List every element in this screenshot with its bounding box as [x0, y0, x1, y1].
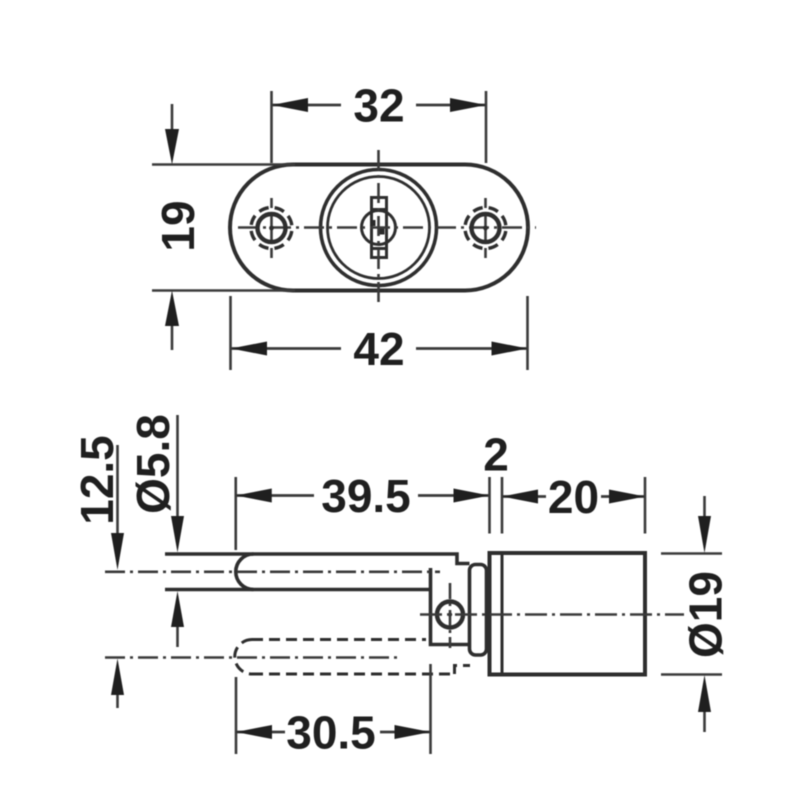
dimension 30.5 [236, 664, 431, 754]
keyway mark lower [379, 229, 385, 235]
dim 30.5 left arrow [236, 725, 272, 739]
dim 32 right arrow [450, 98, 486, 112]
dim 39.5 right arrow [454, 489, 490, 503]
dim 19 bottom arrow [165, 291, 179, 327]
dim 5.8 top arrow [171, 516, 184, 553]
left hole vertical crosshair [270, 198, 273, 258]
lock plate outline (top view) [230, 165, 528, 291]
dimension diameter 5.8 [176, 415, 179, 647]
key slot rectangle [372, 198, 387, 258]
svg-text:19: 19 [152, 200, 204, 251]
key slot lower line [372, 247, 387, 250]
hub capsule [470, 565, 487, 656]
svg-text:Ø5.8: Ø5.8 [127, 414, 179, 514]
dim 32 left arrow [272, 98, 308, 112]
dim 19dia top arrow [698, 516, 711, 553]
dim 12.5 bottom arrow [111, 659, 124, 696]
vertical centerline of cylinder [377, 150, 380, 306]
dim 19dia bottom arrow [698, 675, 711, 712]
dim 12.5 top arrow [111, 533, 124, 570]
dim 19 top arrow [165, 129, 179, 165]
horizontal centerline of plate [238, 226, 536, 229]
svg-text:42: 42 [353, 323, 404, 375]
dimension 32 [272, 91, 487, 163]
dim 20 right arrow [609, 490, 645, 504]
lever bottom edge with extension [165, 588, 431, 592]
right screw hole [465, 208, 506, 249]
mechanism housing box [431, 568, 470, 645]
cylinder body with flange [490, 553, 646, 675]
svg-text:20: 20 [548, 471, 599, 523]
dim 42 left arrow [231, 342, 267, 356]
left screw hole [251, 208, 292, 249]
dimension 12.5 [116, 445, 119, 708]
pin vertical crosshair [449, 583, 452, 648]
dimension 2 extension lines [490, 477, 503, 534]
svg-text:12.5: 12.5 [71, 435, 123, 525]
dashed lever (second position) [235, 640, 470, 675]
svg-text:32: 32 [353, 80, 404, 132]
lever top edge with extension [165, 554, 470, 564]
dimension 20 [502, 477, 645, 534]
cylinder inner circle [328, 177, 430, 279]
dim 30.5 right arrow [395, 725, 431, 739]
svg-text:39.5: 39.5 [321, 470, 411, 522]
dimension 42 [231, 296, 528, 370]
dimension 19 [152, 104, 295, 350]
svg-text:Ø19: Ø19 [680, 571, 732, 658]
dim 5.8 bottom arrow [171, 591, 184, 627]
dashed lever centerline [105, 656, 398, 659]
key slot upper line [372, 208, 387, 211]
svg-text:30.5: 30.5 [286, 707, 376, 759]
key plug circle [362, 211, 396, 245]
dimension diameter 19 [661, 496, 722, 732]
keyway mark upper [371, 220, 376, 226]
main cylinder centerline [420, 613, 684, 616]
dimension 39.5 [236, 477, 490, 550]
svg-text:2: 2 [483, 429, 509, 481]
pivot pin circle [437, 602, 463, 628]
dim 42 right arrow [492, 342, 528, 356]
solid lever centerline [105, 570, 440, 573]
dim 20 left arrow [502, 490, 538, 504]
lever rounded left cap [236, 554, 254, 590]
dim 39.5 left arrow [236, 489, 272, 503]
right hole vertical crosshair [484, 198, 487, 258]
cylinder outer circle [321, 170, 437, 286]
